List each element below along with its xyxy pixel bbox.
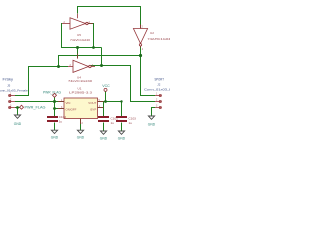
svg-text:GND: GND (77, 136, 85, 140)
svg-text:74LVC1G240: 74LVC1G240 (68, 79, 92, 83)
svg-text:PWR_FLAG: PWR_FLAG (43, 90, 62, 94)
svg-text:C103: C103 (129, 117, 137, 121)
svg-text:VOUT: VOUT (88, 101, 96, 105)
svg-text:U5: U5 (77, 33, 81, 37)
svg-text:ON/OFF: ON/OFF (66, 108, 77, 112)
svg-text:1u: 1u (129, 121, 133, 125)
svg-text:SPORT: SPORT (154, 77, 164, 81)
svg-text:GND: GND (148, 122, 156, 126)
svg-text:VCC: VCC (102, 84, 110, 88)
svg-text:GND: GND (118, 137, 126, 141)
svg-text:1u: 1u (59, 119, 63, 123)
svg-text:PWR_FLAG: PWR_FLAG (25, 106, 47, 110)
svg-text:BYP: BYP (91, 108, 97, 112)
svg-text:Conn_01x03_Female: Conn_01x03_Female (0, 88, 28, 92)
svg-text:1u: 1u (111, 121, 115, 125)
svg-text:J2: J2 (157, 82, 160, 86)
svg-text:GND: GND (14, 122, 22, 126)
svg-text:C101: C101 (111, 117, 119, 121)
svg-text:Conn_01x03_Fe: Conn_01x03_Fe (144, 87, 170, 91)
svg-text:LP2985-3.3: LP2985-3.3 (69, 90, 92, 94)
svg-text:FrSky: FrSky (3, 78, 14, 82)
svg-text:GND: GND (100, 137, 108, 141)
svg-text:U2: U2 (150, 31, 154, 35)
svg-text:VIN: VIN (66, 101, 71, 105)
svg-text:GND: GND (51, 136, 59, 140)
svg-text:74LVC1G240: 74LVC1G240 (70, 38, 90, 42)
svg-text:J5: J5 (7, 84, 10, 88)
svg-text:74AHC1G04: 74AHC1G04 (147, 37, 170, 41)
